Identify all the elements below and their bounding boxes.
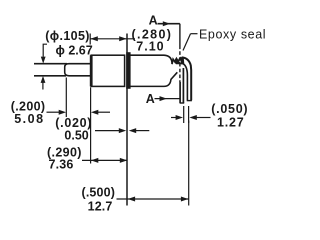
barrel left face thick line (90, 55, 93, 86)
section line A-A dashed (179, 46, 181, 83)
svg-text:A: A (149, 14, 158, 28)
.020 arrowhead pointing right (119, 128, 126, 133)
svg-text:12.7: 12.7 (88, 199, 113, 213)
.280 left arrowhead (90, 36, 97, 41)
.500 dim line (117, 198, 189, 200)
.500 left arrowhead (128, 197, 135, 202)
bend dark sliver (180, 57, 184, 65)
phi dim down arrow (41, 57, 46, 64)
barrel face extension line (90, 87, 92, 163)
svg-text:A: A (146, 92, 155, 106)
.280 dim line (90, 38, 135, 40)
flange (127, 53, 131, 89)
phi dim leader corner (43, 44, 47, 57)
.050 left arrow tail (171, 117, 178, 119)
.050 left arrowhead (176, 115, 183, 120)
tip bottom extension line (34, 75, 66, 77)
epoxy seal fillet lower (171, 72, 178, 79)
.290 right arrowhead (120, 158, 127, 163)
epoxy seal fillet upper (172, 58, 180, 64)
lead bottom closure left (180, 102, 185, 104)
A lower arrowhead (160, 96, 167, 101)
lead outer bend (182, 57, 192, 100)
svg-text:7.36: 7.36 (49, 158, 74, 172)
lead bottom closure right (187, 100, 192, 102)
.280 left extension (89, 34, 91, 45)
phi dim up arrow (41, 76, 46, 83)
tip cylinder (65, 64, 92, 76)
A top arrow line (158, 23, 171, 25)
.280 right arrowhead (119, 36, 126, 41)
lead left edge (182, 68, 184, 103)
svg-text:(.050): (.050) (211, 102, 248, 116)
.200 left extension (tip front) (65, 78, 67, 118)
svg-text:Epoxy seal: Epoxy seal (199, 28, 266, 42)
long extension line through flange (126, 34, 128, 206)
.020 left tail (95, 130, 121, 132)
.020 right tail (134, 130, 150, 132)
.050 right arrow tail (196, 117, 211, 119)
tip top extension line (34, 63, 67, 65)
svg-text:7.10: 7.10 (136, 39, 164, 53)
svg-text:(.500): (.500) (82, 185, 116, 199)
section line A-A top solid (179, 24, 181, 46)
svg-text:5.08: 5.08 (14, 112, 44, 126)
.200 arrowhead (points right) (59, 110, 66, 115)
svg-text:1.27: 1.27 (217, 115, 245, 129)
.500 right arrowhead (181, 197, 188, 202)
svg-text:ϕ 2.67: ϕ 2.67 (56, 44, 93, 58)
epoxy seal fillet wedge (175, 58, 183, 64)
.050 right arrowhead (189, 115, 196, 120)
.200 right arrowhead (points left at barrel ext) (91, 110, 98, 115)
.290 left arrowhead (91, 158, 98, 163)
.200 leader (47, 111, 62, 113)
section line top corner (158, 23, 180, 25)
.020 arrowhead pointing left (129, 128, 136, 133)
.050 left extension (183, 106, 185, 123)
A top arrowhead (163, 21, 170, 26)
epoxy leader diagonal (183, 34, 191, 51)
epoxy leader dash (191, 33, 198, 35)
.050 right extension (188, 106, 190, 123)
lower A arrow line (155, 98, 181, 100)
svg-text:(ϕ.105): (ϕ.105) (45, 29, 89, 43)
lead inner bend (182, 63, 187, 100)
.290 dim line (82, 159, 127, 161)
.020 arrow tail left of barrel ext (96, 111, 111, 113)
.500 right extension (188, 121, 190, 206)
barrel section 1 (91, 55, 124, 86)
barrel section 2 (130, 55, 172, 86)
section line A-A bottom solid (179, 82, 181, 103)
svg-text:0.50: 0.50 (64, 128, 88, 142)
phi dim lower tail (42, 82, 44, 90)
